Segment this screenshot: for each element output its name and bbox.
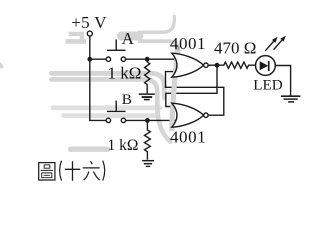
- glyph 圖: [39, 163, 55, 180]
- glyph ): [103, 161, 105, 181]
- resistor R3 470 ohm: [217, 62, 256, 68]
- wire gate1 output to node: [208, 64, 217, 66]
- switch A (pushbutton): [106, 57, 110, 61]
- glyph (: [60, 161, 62, 181]
- wire switch B row to gate 2 input: [126, 119, 177, 121]
- node Q: [215, 63, 220, 68]
- wire feedback gate2 output up to gate1 bottom input: [166, 72, 224, 116]
- wire LED to ground: [275, 66, 290, 96]
- wire switch A row to gate 1 input: [90, 58, 177, 60]
- gray highlighter marks: [0, 15, 178, 149]
- gray band behind gates: [172, 46, 178, 131]
- svg-text:+5 V: +5 V: [71, 13, 107, 32]
- gray bar B row upper: [53, 105, 160, 110]
- LED D1: [256, 56, 276, 76]
- gray bar caption: [71, 146, 108, 151]
- resistor R2 1kohm: [144, 120, 150, 159]
- op-amp U1: NOR gate 1 (4001): [172, 53, 204, 77]
- LED emission arrow 1: [265, 41, 273, 50]
- LED emission arrow 2: [274, 40, 282, 49]
- terminal +5V: [87, 31, 92, 36]
- svg-text:4001: 4001: [170, 128, 206, 147]
- gray tube mid upper: [51, 73, 164, 98]
- node junction R2 top: [145, 118, 150, 123]
- gray tube mid lower / big curve: [51, 79, 170, 141]
- gray tube near A merged start: [122, 32, 140, 41]
- node junction below +5V: [87, 57, 92, 62]
- svg-text:B: B: [122, 91, 132, 108]
- gray bar B row lower: [64, 113, 156, 118]
- ground below R2: [142, 160, 154, 162]
- resistor R1 1kohm: [145, 59, 150, 93]
- node junction R1 top: [145, 57, 150, 62]
- glyph 六: [83, 161, 100, 180]
- switch B (pushbutton): [106, 118, 110, 122]
- gray bracket top-left: [69, 32, 85, 36]
- glyph 十: [65, 161, 81, 180]
- caption: hand-drawn CJK 圖(十六): [39, 161, 105, 181]
- ground right: [281, 95, 301, 97]
- ground below R1: [139, 93, 155, 95]
- wire feedback gate1 output down to gate2 top input: [166, 65, 217, 106]
- gray tube near A inner: [138, 15, 175, 32]
- svg-text:1 kΩ: 1 kΩ: [108, 137, 139, 154]
- svg-text:LED: LED: [253, 77, 283, 94]
- gray tick left edge: [0, 63, 3, 68]
- op-amp U2: NOR gate 2 (4001): [172, 103, 204, 127]
- gray tube near A outer: [138, 41, 178, 50]
- wire +5V vertical feed: [90, 36, 106, 120]
- svg-text:470 Ω: 470 Ω: [214, 39, 256, 58]
